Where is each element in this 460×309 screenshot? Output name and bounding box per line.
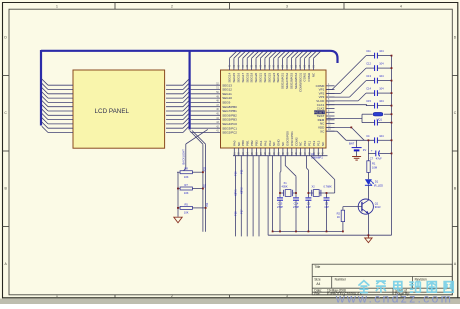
bottom gray band: [0, 299, 460, 304]
svg-text:P21: P21: [204, 183, 207, 188]
svg-text:COM0/SEG31: COM0/SEG31: [298, 72, 302, 92]
svg-text:104: 104: [379, 134, 384, 138]
svg-text:OSC0/PD0: OSC0/PD0: [285, 131, 289, 146]
svg-text:C2: C2: [307, 201, 311, 205]
svg-text:PB3: PB3: [255, 140, 259, 146]
watermark chinese characters: [358, 281, 453, 293]
svg-text:SEG23: SEG23: [267, 72, 271, 82]
svg-text:10K: 10K: [184, 211, 189, 215]
capacitor C4: [366, 134, 391, 143]
ground (backlight chain): [174, 217, 182, 223]
svg-text:10M: 10M: [372, 165, 377, 169]
capacitor C15: [366, 99, 392, 108]
crystal X2 0.768K: [312, 185, 332, 197]
wire: long horizontal under MCU bottom pins: [233, 155, 328, 157]
svg-text:SEG22: SEG22: [263, 72, 267, 82]
resistor R2 1K: [337, 207, 345, 232]
svg-text:3: 3: [286, 4, 288, 8]
bus left vertical: [40, 50, 42, 126]
wire: VDD pin to battery rail: [326, 131, 375, 140]
resistor R7 10K: [177, 183, 203, 195]
MCU bottom pin name labels: [232, 131, 324, 146]
resonator MQ1: [373, 112, 392, 121]
wire: Q1 emitter to rail: [367, 214, 369, 236]
svg-text:R2: R2: [337, 211, 341, 215]
svg-text:2: 2: [171, 294, 173, 298]
LCD panel U2: [73, 70, 165, 148]
svg-text:R8: R8: [185, 167, 189, 171]
svg-text:COM2: COM2: [294, 137, 298, 146]
svg-text:C13: C13: [366, 74, 371, 78]
pin numbers left of MCU: [216, 83, 219, 132]
svg-text:P20: P20: [204, 167, 207, 172]
svg-text:BACKLIGHT: BACKLIGHT: [181, 149, 185, 165]
MCU U1 body: [221, 70, 327, 148]
MCU top pin numbers: [230, 64, 316, 67]
resistor R8 10K: [177, 167, 203, 179]
svg-text:C14: C14: [294, 201, 299, 205]
crystal X1 405K: [280, 181, 296, 196]
svg-text:X2: X2: [312, 185, 316, 189]
svg-text:SEG21: SEG21: [259, 72, 263, 82]
title block text: [314, 265, 427, 296]
svg-text:COM1: COM1: [303, 72, 307, 81]
MCU left pin name labels: [222, 83, 237, 134]
MCU right pin name labels: [314, 84, 325, 133]
svg-text:C3: C3: [325, 201, 329, 205]
title block: [312, 264, 452, 295]
svg-text:PA0: PA0: [232, 140, 236, 146]
junction dots chain: [177, 171, 206, 209]
svg-text:P11: P11: [240, 169, 244, 174]
capacitor C16 (parallel with MQ1): [375, 120, 392, 126]
svg-text:KEY2: KEY2: [240, 187, 244, 194]
wire: right vertical rail: [391, 56, 393, 236]
svg-text:47uF: 47uF: [376, 157, 382, 161]
svg-text:+: +: [371, 149, 373, 153]
wire group: LCD right pins to mid bus with bus entries: [166, 79, 189, 133]
svg-text:SEG2/PC2: SEG2/PC2: [222, 131, 237, 135]
LED D1 IR_LED: [365, 179, 383, 187]
svg-text:Revision: Revision: [415, 277, 427, 281]
svg-text:C15: C15: [278, 201, 283, 205]
svg-text:SEG16: SEG16: [236, 72, 240, 82]
svg-text:Size: Size: [314, 277, 320, 281]
svg-text:SEG29/KS4: SEG29/KS4: [294, 72, 298, 89]
wire: backlight net from pin row down-left: [178, 129, 208, 216]
svg-text:PB2: PB2: [250, 140, 254, 146]
MCU top pin stubs and bus entries: [230, 51, 321, 70]
svg-text:Title: Title: [314, 265, 320, 269]
svg-text:SEG17: SEG17: [241, 72, 245, 82]
MCU bottom pin numbers: [234, 152, 324, 155]
svg-text:X1: X1: [284, 181, 288, 185]
svg-text:405K: 405K: [282, 185, 288, 189]
svg-text:R1: R1: [372, 162, 376, 166]
svg-text:13P: 13P: [324, 205, 329, 209]
svg-text:SEG14: SEG14: [228, 72, 232, 82]
svg-text:COM2: COM2: [307, 72, 311, 81]
svg-text:R5: R5: [185, 202, 189, 206]
svg-text:IR_LED: IR_LED: [374, 183, 383, 187]
svg-text:SEG20: SEG20: [254, 72, 258, 82]
svg-text:P11: P11: [308, 141, 312, 146]
svg-text:P10: P10: [234, 171, 238, 176]
MCU bottom pin stubs: [234, 148, 322, 156]
svg-text:10K: 10K: [184, 175, 189, 179]
svg-text:C4: C4: [366, 134, 370, 138]
svg-text:13P: 13P: [306, 205, 311, 209]
svg-text:SEG28/KS3: SEG28/KS3: [290, 72, 294, 89]
svg-text:104: 104: [379, 99, 384, 103]
svg-text:P22: P22: [206, 202, 209, 207]
ground (emitter): [365, 235, 372, 242]
MCU right pin stubs: [326, 86, 335, 131]
wire: node to C7 / R1 chain: [367, 140, 369, 161]
svg-text:D1: D1: [375, 180, 379, 184]
svg-text:R7: R7: [185, 183, 189, 187]
svg-text:0.768K: 0.768K: [324, 185, 332, 189]
svg-text:OSC1/PD1: OSC1/PD1: [290, 131, 294, 146]
svg-text:C12: C12: [366, 62, 371, 66]
capacitor C11: [366, 49, 392, 58]
wire group: verticals right of resistor chain: [190, 131, 206, 232]
bus mid vertical: [189, 50, 191, 130]
part label U1: [311, 152, 323, 160]
capacitor C14b 270P: [293, 198, 299, 232]
svg-text:LCD PANEL: LCD PANEL: [95, 108, 130, 115]
svg-text:GND: GND: [277, 139, 281, 147]
svg-text:P12: P12: [312, 140, 316, 146]
svg-text:P10: P10: [303, 140, 307, 146]
junction dots right rail: [350, 55, 392, 236]
resistor R5 10K: [177, 202, 206, 214]
svg-text:Q1: Q1: [375, 201, 379, 205]
svg-text:www.cndzz.com: www.cndzz.com: [335, 291, 453, 304]
svg-text:270P: 270P: [277, 205, 283, 209]
svg-text:104: 104: [379, 74, 384, 78]
svg-text:1: 1: [56, 294, 58, 298]
wire group: LCD left pins to left bus with bus entries: [42, 79, 73, 133]
ground (battery): [352, 157, 361, 161]
capacitor C2 13P: [305, 198, 311, 232]
svg-text:10K: 10K: [184, 191, 189, 195]
svg-text:C7: C7: [370, 157, 374, 161]
svg-text:104: 104: [379, 62, 384, 66]
svg-text:SEG15: SEG15: [232, 72, 236, 82]
capacitor C3 13P: [324, 193, 330, 231]
svg-text:104: 104: [379, 87, 384, 91]
svg-text:SEG26/KS1: SEG26/KS1: [281, 72, 285, 89]
svg-text:2: 2: [171, 4, 173, 8]
net labels under MCU: [234, 169, 244, 216]
svg-text:BAT: BAT: [349, 142, 355, 146]
svg-text:P13: P13: [316, 140, 320, 146]
wire group: dangling pin wires under MCU: [235, 156, 259, 237]
svg-text:File:: File:: [314, 292, 320, 296]
svg-text:C14: C14: [366, 87, 371, 91]
svg-text:A4: A4: [316, 282, 320, 286]
svg-text:SEG25: SEG25: [276, 72, 280, 82]
svg-text:C11: C11: [366, 49, 371, 53]
wire: CLK pin to MQ1 pair: [326, 114, 375, 122]
bus top horizontal: [41, 51, 338, 63]
junction dots crystal area: [272, 192, 344, 232]
svg-text:104: 104: [379, 49, 384, 53]
MCU right pin numbers: [328, 84, 331, 131]
svg-text:270P: 270P: [293, 205, 299, 209]
svg-text:PA3: PA3: [268, 140, 272, 146]
svg-text:SEG18: SEG18: [245, 72, 249, 82]
wire: LED to Q1 collector: [367, 185, 369, 200]
svg-text:PB1: PB1: [246, 140, 250, 146]
resistor R1 10M: [367, 161, 377, 173]
capacitor C13: [366, 74, 392, 83]
capacitor C12: [366, 62, 392, 71]
wire group: mid bus to MCU left pins: [191, 85, 221, 132]
svg-text:PA2: PA2: [263, 140, 267, 146]
svg-text:P17: P17: [240, 209, 244, 214]
wire: outer bottom rail: [268, 156, 391, 236]
capacitor C14: [366, 87, 392, 96]
svg-text:1: 1: [56, 4, 58, 8]
svg-text:C15: C15: [366, 99, 371, 103]
transistor Q1 9013: [358, 199, 381, 214]
svg-text:KEY1: KEY1: [234, 189, 238, 196]
wire: inner bottom rail: [273, 156, 343, 232]
svg-text:9013: 9013: [375, 205, 381, 209]
wire: R1 to LED: [367, 172, 369, 179]
wire: Q1 base: [343, 206, 362, 208]
net labels on chain verticals: [204, 167, 210, 207]
wire group: MCU pins down to X1: [280, 156, 296, 198]
svg-text:P16: P16: [234, 211, 238, 216]
svg-text:SEG24: SEG24: [272, 72, 276, 82]
svg-text:SEG19: SEG19: [250, 72, 254, 82]
wire group: MCU pins down to X2: [307, 156, 335, 198]
wire group: MCU right pins to capacitor bank (diagonals): [326, 56, 367, 106]
svg-text:PA1: PA1: [259, 140, 263, 146]
svg-text:3: 3: [286, 294, 288, 298]
capacitor C15b 270P: [277, 198, 283, 232]
wire: TEST pin to battery node diagonal: [326, 127, 364, 140]
battery BAT 3V: [349, 140, 366, 156]
MCU top pin name labels: [228, 72, 316, 92]
svg-text:PB0: PB0: [241, 140, 245, 146]
svg-text:3V: 3V: [363, 148, 367, 152]
svg-text:4: 4: [400, 4, 402, 8]
svg-text:1K: 1K: [337, 215, 340, 219]
capacitor C7 47uF (polarized): [368, 149, 391, 161]
svg-text:SEG27/KS2: SEG27/KS2: [285, 72, 289, 89]
svg-text:Number: Number: [335, 277, 347, 281]
